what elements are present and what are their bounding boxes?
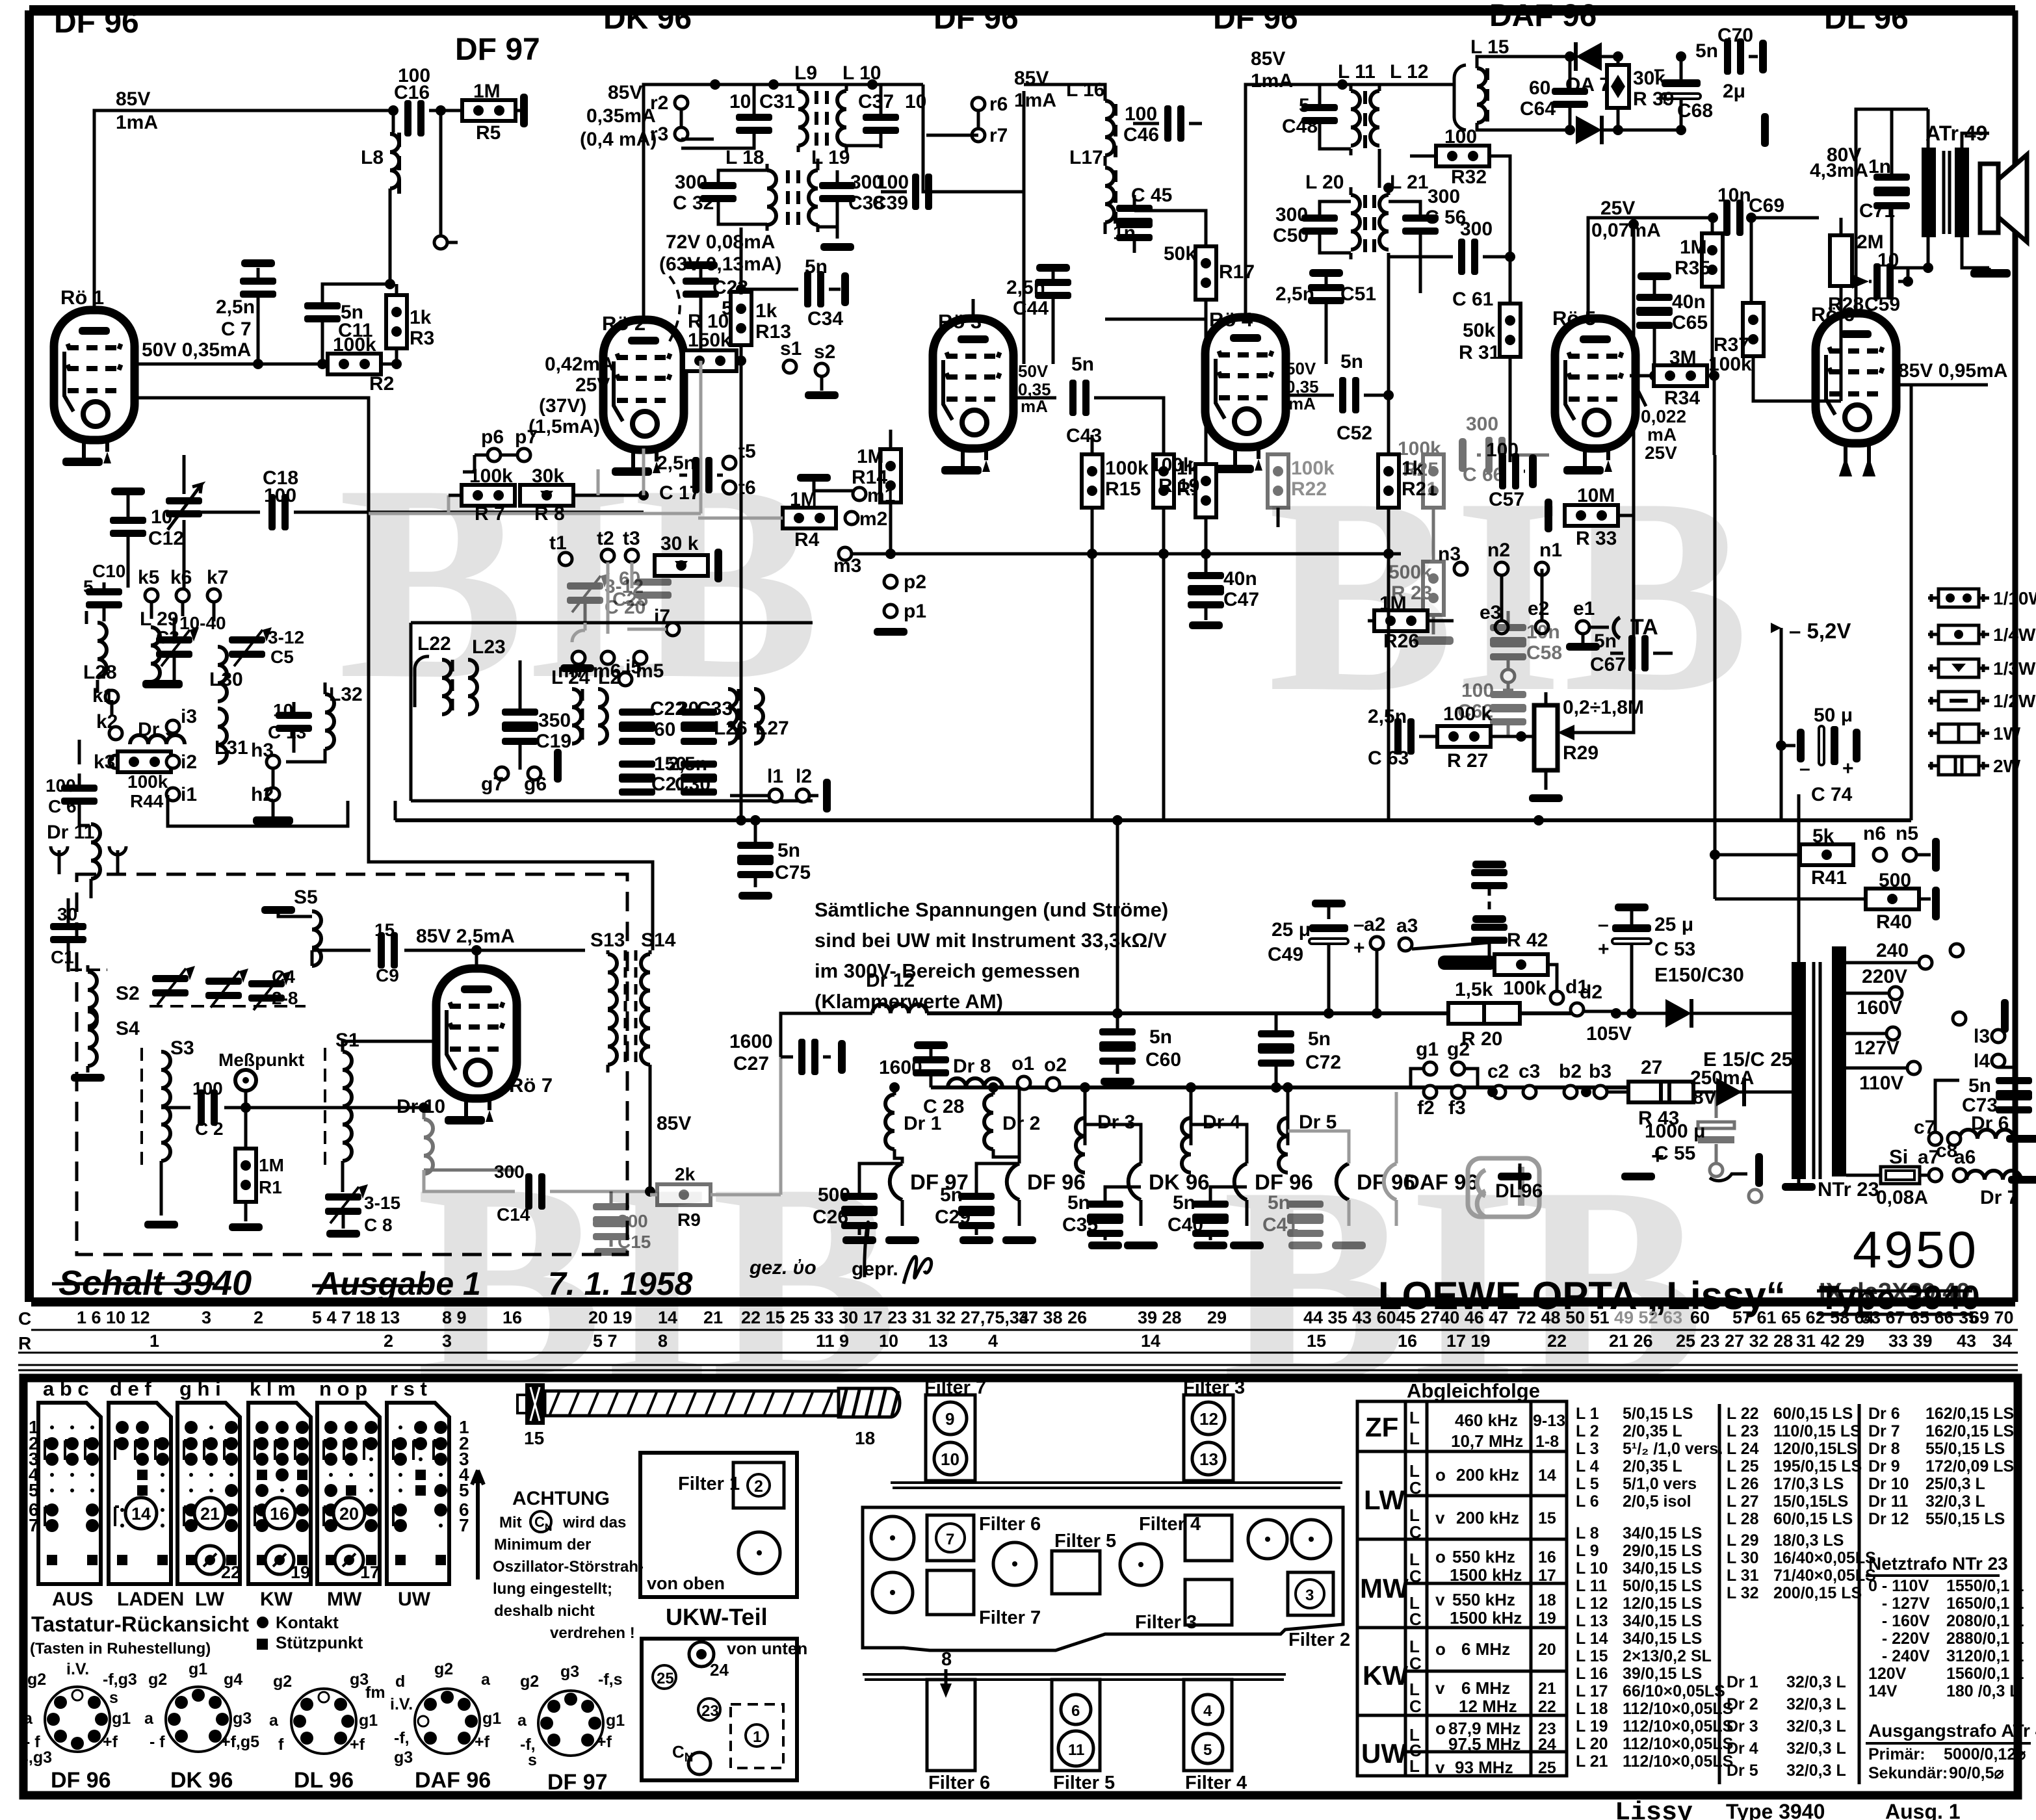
resistor R8 xyxy=(520,485,573,506)
svg-text:10: 10 xyxy=(273,700,293,720)
svg-text:60: 60 xyxy=(1690,1308,1710,1327)
C30 2,5n xyxy=(681,760,717,781)
svg-text:Dr 8: Dr 8 xyxy=(953,1056,991,1077)
svg-text:C64: C64 xyxy=(1520,98,1556,120)
svg-text:a3: a3 xyxy=(1396,915,1418,937)
SECTION:MIDLEFT terminals t + R7 R8 xyxy=(369,361,722,634)
legend 1/10W xyxy=(1928,588,2036,608)
svg-text:5/1,0 vers: 5/1,0 vers xyxy=(1623,1475,1697,1493)
svg-text:wird das: wird das xyxy=(562,1514,626,1531)
svg-text:Type 3940: Type 3940 xyxy=(1726,1800,1825,1820)
svg-text:–: – xyxy=(1654,58,1665,80)
svg-text:f2: f2 xyxy=(1417,1097,1435,1119)
svg-text:DF 96: DF 96 xyxy=(51,1768,111,1793)
svg-text:c2: c2 xyxy=(1487,1061,1509,1082)
svg-text:r2: r2 xyxy=(650,92,668,114)
svg-text:1M: 1M xyxy=(857,446,884,467)
L24 L25 xyxy=(572,689,581,744)
svg-text:+: + xyxy=(1659,88,1671,110)
svg-text:500: 500 xyxy=(818,1184,850,1206)
svg-text:180 /0,3 L: 180 /0,3 L xyxy=(1946,1682,2020,1700)
svg-text:100k: 100k xyxy=(1291,458,1335,479)
svg-text:DK 96: DK 96 xyxy=(170,1768,233,1793)
tube Rö2 xyxy=(603,320,684,450)
svg-text:L 11: L 11 xyxy=(1338,61,1376,83)
svg-text:g2: g2 xyxy=(148,1670,167,1689)
C64 xyxy=(1552,88,1588,108)
svg-text:g2: g2 xyxy=(27,1670,46,1689)
n3 n2 n1 terms xyxy=(1454,562,1467,575)
svg-text:27: 27 xyxy=(1641,1057,1662,1078)
svg-text:C 7: C 7 xyxy=(221,318,252,340)
svg-text:a: a xyxy=(481,1670,491,1689)
svg-text:4,3mA: 4,3mA xyxy=(1810,160,1868,181)
svg-text:25 23 27 32 28: 25 23 27 32 28 xyxy=(1676,1331,1793,1351)
svg-text:100k: 100k xyxy=(127,772,168,792)
svg-text:+: + xyxy=(1651,1144,1664,1169)
svg-text:24: 24 xyxy=(1538,1735,1556,1754)
svg-text:p7: p7 xyxy=(515,426,538,448)
svg-text:i1: i1 xyxy=(181,784,197,805)
svg-text:R 7: R 7 xyxy=(475,503,505,525)
R28 2M pot xyxy=(1830,235,1852,286)
svg-text:C49: C49 xyxy=(1268,944,1303,965)
coil L30 xyxy=(218,647,227,701)
ACHTUNG block xyxy=(493,1488,644,1642)
svg-text:L9: L9 xyxy=(794,62,817,84)
svg-text:R 19: R 19 xyxy=(1158,475,1199,497)
terminals t1 t2 t3 xyxy=(559,552,572,565)
svg-text:5¹/₂ /1,0 vers.: 5¹/₂ /1,0 vers. xyxy=(1623,1440,1723,1458)
svg-text:L28: L28 xyxy=(83,662,117,683)
svg-text:n1: n1 xyxy=(1539,539,1562,561)
svg-text:1mA: 1mA xyxy=(1014,90,1056,111)
svg-text:R37: R37 xyxy=(1714,334,1749,356)
svg-text:1 6 10 12: 1 6 10 12 xyxy=(77,1308,150,1327)
svg-text:i.V.: i.V. xyxy=(390,1695,413,1713)
svg-text:C12: C12 xyxy=(148,528,184,549)
svg-text:L 14: L 14 xyxy=(1576,1630,1608,1648)
svg-text:R25: R25 xyxy=(1403,459,1439,480)
svg-text:L 12: L 12 xyxy=(1390,61,1429,83)
svg-text:22: 22 xyxy=(1538,1698,1556,1716)
svg-text:Rö 7: Rö 7 xyxy=(509,1074,553,1097)
svg-text:4: 4 xyxy=(988,1331,998,1351)
coil L8 xyxy=(392,110,395,133)
svg-text:2,5n: 2,5n xyxy=(1006,277,1045,298)
svg-text:3-15: 3-15 xyxy=(364,1193,400,1213)
choke Dr11 xyxy=(91,824,100,879)
svg-text:0,2÷1,8M: 0,2÷1,8M xyxy=(1563,697,1644,718)
tube Rö7 xyxy=(436,968,517,1098)
resistor R10 xyxy=(683,350,737,371)
Dr5 DF96 xyxy=(1283,1082,1293,1093)
svg-text:31 42 29: 31 42 29 xyxy=(1796,1331,1864,1351)
svg-text:+: + xyxy=(1598,939,1610,960)
svg-text:C18: C18 xyxy=(263,467,298,489)
svg-text:L 15: L 15 xyxy=(1470,36,1509,58)
svg-text:C 6: C 6 xyxy=(48,796,77,816)
legend 1W xyxy=(1928,723,2021,744)
svg-text:R 8: R 8 xyxy=(534,503,565,525)
svg-text:gepr.: gepr. xyxy=(852,1258,898,1280)
svg-text:g3: g3 xyxy=(394,1748,413,1767)
svg-text:112/10×0,05LS: 112/10×0,05LS xyxy=(1623,1700,1733,1718)
switch contact xyxy=(1438,955,1496,970)
svg-text:Dr 7: Dr 7 xyxy=(1868,1422,1900,1440)
svg-text:8: 8 xyxy=(658,1331,668,1351)
coil L31 xyxy=(218,708,227,763)
svg-text:18: 18 xyxy=(1538,1591,1556,1609)
svg-text:97,5 MHz: 97,5 MHz xyxy=(1448,1734,1520,1754)
C61 300 xyxy=(1458,239,1478,275)
svg-text:Dr 8: Dr 8 xyxy=(1868,1440,1900,1458)
R33 10M xyxy=(1545,499,1552,532)
svg-text:17: 17 xyxy=(360,1563,380,1582)
svg-text:17 19: 17 19 xyxy=(1446,1331,1491,1351)
svg-text:Dr 2: Dr 2 xyxy=(1727,1695,1758,1713)
capacitor C7 xyxy=(241,259,275,267)
C19 350 xyxy=(502,708,538,729)
svg-text:s1: s1 xyxy=(780,338,802,359)
svg-text:C29: C29 xyxy=(935,1206,971,1228)
svg-text:Rö 1: Rö 1 xyxy=(60,286,104,309)
svg-text:C47: C47 xyxy=(1223,589,1259,610)
svg-text:Netztrafo NTr 23: Netztrafo NTr 23 xyxy=(1868,1553,2008,1574)
svg-text:C69: C69 xyxy=(1749,195,1784,216)
svg-text:1-8: 1-8 xyxy=(1535,1433,1559,1451)
svg-text:1M: 1M xyxy=(790,489,817,510)
capacitor C6 xyxy=(61,785,98,805)
svg-text:–: – xyxy=(1799,758,1810,779)
coil S4 xyxy=(88,1011,97,1066)
svg-text:R 33: R 33 xyxy=(1576,528,1617,549)
svg-text:E150/C30: E150/C30 xyxy=(1654,963,1744,986)
wires band switch xyxy=(151,602,214,621)
d2 xyxy=(1571,1003,1584,1016)
svg-text:Ausgabe 1: Ausgabe 1 xyxy=(315,1266,481,1302)
svg-text:m1: m1 xyxy=(867,485,895,506)
svg-text:g2: g2 xyxy=(1447,1039,1470,1060)
svg-text:Dr 6: Dr 6 xyxy=(1868,1405,1900,1423)
svg-text:5n: 5n xyxy=(1695,40,1718,62)
svg-text:C10: C10 xyxy=(92,561,125,581)
svg-text:r6: r6 xyxy=(989,94,1008,115)
svg-text:1650/0,1 L: 1650/0,1 L xyxy=(1946,1594,2024,1613)
svg-text:15: 15 xyxy=(524,1428,544,1448)
svg-text:85V: 85V xyxy=(1251,48,1285,70)
capacitor C34 xyxy=(741,227,798,289)
capacitor C18 xyxy=(184,511,644,514)
R26 1M xyxy=(1374,610,1428,631)
svg-text:2/0,5 isol: 2/0,5 isol xyxy=(1623,1492,1691,1511)
svg-text:160V: 160V xyxy=(1857,997,1902,1019)
svg-text:112/10×0,05LS: 112/10×0,05LS xyxy=(1623,1717,1733,1735)
svg-text:C43: C43 xyxy=(1066,425,1102,447)
svg-text:85V: 85V xyxy=(657,1113,691,1134)
svg-text:- 127V: - 127V xyxy=(1868,1594,1930,1613)
capacitor C44 xyxy=(1036,264,1070,272)
svg-text:l3: l3 xyxy=(1974,1026,1990,1047)
svg-text:C 53: C 53 xyxy=(1654,939,1695,960)
svg-text:b3: b3 xyxy=(1589,1061,1612,1082)
svg-text:R44: R44 xyxy=(130,791,164,811)
svg-text:1/3W: 1/3W xyxy=(1993,658,2036,679)
trimmer C20 gray xyxy=(567,573,646,623)
svg-text:C46: C46 xyxy=(1123,124,1159,146)
svg-text:BIB: BIB xyxy=(1268,441,1749,750)
svg-text:100k: 100k xyxy=(1708,354,1752,375)
svg-text:20 19: 20 19 xyxy=(588,1308,633,1327)
svg-text:L 30: L 30 xyxy=(1727,1549,1759,1567)
svg-text:C35: C35 xyxy=(1062,1214,1098,1236)
svg-text:16: 16 xyxy=(1538,1548,1556,1566)
svg-text:R17: R17 xyxy=(1219,261,1255,283)
svg-text:21: 21 xyxy=(703,1308,723,1327)
svg-text:300: 300 xyxy=(1460,218,1493,240)
svg-text:Dr 1: Dr 1 xyxy=(904,1113,941,1134)
svg-text:172/0,09 LS: 172/0,09 LS xyxy=(1925,1457,2014,1475)
svg-text:C: C xyxy=(1409,1654,1422,1673)
svg-text:Si: Si xyxy=(1889,1145,1908,1168)
svg-text:NTr 23: NTr 23 xyxy=(1818,1178,1879,1201)
svg-text:85V: 85V xyxy=(608,82,642,103)
svg-text:5n: 5n xyxy=(1308,1028,1331,1050)
handwriting gez/gepr xyxy=(749,1257,898,1280)
svg-text:- 240V: - 240V xyxy=(1868,1647,1930,1665)
svg-text:g1: g1 xyxy=(1416,1039,1439,1060)
svg-text:C30: C30 xyxy=(675,773,711,795)
legend 1/3W xyxy=(1928,658,2036,679)
svg-text:KW: KW xyxy=(1363,1660,1408,1691)
SECTION:DAF96 AREA xyxy=(1454,25,1769,147)
svg-text:2k: 2k xyxy=(675,1164,696,1184)
svg-text:g1: g1 xyxy=(112,1709,131,1728)
svg-text:2080/0,1 L: 2080/0,1 L xyxy=(1946,1612,2024,1630)
svg-text:S14: S14 xyxy=(641,929,676,951)
keyboard dots xyxy=(45,1421,447,1565)
svg-text:10: 10 xyxy=(941,1449,959,1469)
svg-text:L 16: L 16 xyxy=(1576,1665,1608,1683)
svg-text:C59: C59 xyxy=(1864,294,1900,315)
svg-text:s2: s2 xyxy=(814,341,835,363)
svg-text:+: + xyxy=(1353,937,1365,959)
wire L28 bottom xyxy=(98,680,112,712)
svg-text:– 5,2V: – 5,2V xyxy=(1789,619,1851,643)
svg-text:C58: C58 xyxy=(1526,642,1562,664)
svg-text:1000 μ: 1000 μ xyxy=(1645,1121,1705,1142)
S5 coil xyxy=(261,906,295,914)
filament bus (y=1673) xyxy=(931,1085,1645,1089)
svg-text:L 10: L 10 xyxy=(1576,1559,1608,1578)
svg-text:10M: 10M xyxy=(1577,485,1615,506)
capacitor C45 xyxy=(1116,205,1153,225)
svg-text:13: 13 xyxy=(928,1331,948,1351)
battery cells bottom xyxy=(1498,1173,1532,1180)
svg-text:2880/0,1 L: 2880/0,1 L xyxy=(1946,1630,2024,1648)
svg-text:C70: C70 xyxy=(1717,25,1753,46)
svg-text:8: 8 xyxy=(941,1649,952,1670)
svg-text:L 18: L 18 xyxy=(725,147,764,168)
svg-text:Abgleichfolge: Abgleichfolge xyxy=(1407,1379,1540,1402)
svg-text:5n: 5n xyxy=(1173,1192,1195,1214)
svg-text:L 1: L 1 xyxy=(1576,1405,1599,1423)
svg-text:85V 2,5mA: 85V 2,5mA xyxy=(416,926,515,947)
IF transformer L9/L10 xyxy=(710,79,720,90)
svg-text:C60: C60 xyxy=(1145,1049,1181,1071)
svg-text:DAF 96: DAF 96 xyxy=(415,1768,491,1793)
svg-text:C14: C14 xyxy=(497,1204,530,1225)
svg-text:L 9: L 9 xyxy=(1576,1542,1599,1560)
svg-text:40n: 40n xyxy=(1672,291,1706,313)
svg-text:Dr 1: Dr 1 xyxy=(1727,1673,1758,1691)
svg-text:1/10W: 1/10W xyxy=(1993,588,2036,608)
svg-text:R41: R41 xyxy=(1811,867,1847,889)
C60 5n xyxy=(1099,1028,1136,1048)
svg-text:90/0,5⌀: 90/0,5⌀ xyxy=(1949,1764,2004,1782)
svg-text:1: 1 xyxy=(753,1728,761,1746)
svg-text:s,g3: s,g3 xyxy=(20,1748,52,1767)
svg-text:k3: k3 xyxy=(94,751,115,773)
svg-text:200/0,15 LS: 200/0,15 LS xyxy=(1773,1584,1862,1602)
tube Rö5 xyxy=(1555,318,1636,448)
svg-text:L: L xyxy=(1409,1408,1420,1427)
svg-text:(0,4 mA): (0,4 mA) xyxy=(580,129,657,150)
svg-text:72 48 50 51: 72 48 50 51 xyxy=(1517,1308,1610,1327)
svg-text:L 25: L 25 xyxy=(1727,1457,1759,1475)
svg-text:21: 21 xyxy=(200,1504,220,1524)
svg-text:o: o xyxy=(1435,1547,1446,1566)
R35 1M xyxy=(1702,233,1723,287)
keyboard letters xyxy=(43,1377,427,1400)
C26 500 xyxy=(841,1193,878,1213)
capacitor C14 xyxy=(424,1170,650,1191)
Filter 1 box xyxy=(640,1453,797,1597)
c2 c3 b2 b3 xyxy=(1493,1085,1506,1098)
svg-text:Rö 3: Rö 3 xyxy=(938,310,982,333)
SECTION:MAIN BUSES xyxy=(168,385,1988,1085)
svg-text:18/0,3 LS: 18/0,3 LS xyxy=(1773,1531,1844,1550)
SECTION:NTR23 POWER xyxy=(1710,455,2036,1208)
svg-text:16: 16 xyxy=(502,1308,522,1327)
svg-text:300: 300 xyxy=(1428,186,1460,207)
svg-text:c7: c7 xyxy=(1914,1117,1935,1138)
svg-text:105V: 105V xyxy=(1586,1023,1632,1045)
svg-text:h2: h2 xyxy=(251,784,274,805)
svg-text:L 8: L 8 xyxy=(1576,1524,1599,1542)
svg-text:C75: C75 xyxy=(775,862,811,883)
svg-text:S3: S3 xyxy=(170,1037,194,1059)
SECTION:FILAMENT CHAIN xyxy=(729,1013,1804,1249)
svg-text:37 38 26: 37 38 26 xyxy=(1019,1308,1087,1327)
speaker xyxy=(1980,164,1998,233)
svg-text:R22: R22 xyxy=(1291,478,1327,500)
svg-text:L 17: L 17 xyxy=(1576,1682,1608,1700)
svg-text:a b c: a b c xyxy=(43,1377,89,1400)
svg-text:i.V.: i.V. xyxy=(66,1660,89,1678)
svg-text:r7: r7 xyxy=(989,125,1008,146)
svg-text:Filter 3: Filter 3 xyxy=(1135,1612,1197,1633)
svg-text:Ausgangstrafo ATr 49: Ausgangstrafo ATr 49 xyxy=(1868,1721,2036,1741)
svg-text:57 61 65 62 58 64: 57 61 65 62 58 64 xyxy=(1732,1308,1874,1327)
svg-text:L17: L17 xyxy=(1069,147,1103,168)
svg-text:2: 2 xyxy=(754,1477,763,1496)
svg-text:55/0,15 LS: 55/0,15 LS xyxy=(1925,1440,2005,1458)
svg-text:53 67 65 66 35: 53 67 65 66 35 xyxy=(1861,1308,1978,1327)
svg-text:3120/0,1 L: 3120/0,1 L xyxy=(1946,1647,2024,1665)
svg-text:g h i: g h i xyxy=(179,1377,221,1400)
svg-text:100k: 100k xyxy=(1105,458,1149,479)
svg-text:o1: o1 xyxy=(1011,1053,1034,1074)
svg-text:2μ: 2μ xyxy=(1723,81,1745,102)
svg-text:L 26: L 26 xyxy=(1727,1475,1759,1493)
svg-text:+f,g5: +f,g5 xyxy=(221,1733,259,1751)
R37 100k xyxy=(1743,303,1764,356)
svg-text:C50: C50 xyxy=(1273,225,1309,246)
svg-text:25/0,3 L: 25/0,3 L xyxy=(1925,1475,1985,1493)
SECTION:BOTTOMPANEL xyxy=(23,1378,2018,1795)
svg-text:Filter 4: Filter 4 xyxy=(1185,1773,1247,1793)
capacitor C9 xyxy=(378,932,398,968)
svg-text:C72: C72 xyxy=(1305,1052,1341,1073)
svg-text:C16: C16 xyxy=(394,82,430,103)
SECTION:CRSTRIP xyxy=(18,1308,31,1353)
svg-text:p6: p6 xyxy=(481,426,504,448)
svg-text:L 21: L 21 xyxy=(1576,1752,1608,1771)
svg-text:1n: 1n xyxy=(1113,222,1136,244)
svg-text:C9: C9 xyxy=(376,965,399,985)
trimmer C8 xyxy=(325,1184,368,1223)
svg-text:m6: m6 xyxy=(593,660,621,682)
wire k terminals to coils xyxy=(79,602,325,825)
svg-text:11 9: 11 9 xyxy=(816,1331,849,1351)
svg-text:60/0,15 LS: 60/0,15 LS xyxy=(1773,1510,1853,1528)
svg-text:L 20: L 20 xyxy=(1576,1735,1608,1753)
svg-text:112/10×0,05LS: 112/10×0,05LS xyxy=(1623,1735,1733,1753)
svg-text:R3: R3 xyxy=(410,328,434,349)
svg-text:L 29: L 29 xyxy=(1727,1531,1759,1550)
L11/L12 IF transformer xyxy=(1337,79,1348,90)
C53 25µ xyxy=(1612,924,1651,944)
svg-text:L 27: L 27 xyxy=(1727,1492,1759,1511)
svg-text:2×13/0,2 SL: 2×13/0,2 SL xyxy=(1623,1647,1712,1665)
C47 xyxy=(1205,554,1208,572)
svg-text:1/4W: 1/4W xyxy=(1993,625,2036,645)
resistor R7 xyxy=(449,494,462,497)
SECTION:DK96 STAGE xyxy=(580,62,1024,423)
rail 1 xyxy=(891,1483,1342,1488)
resistor R39 xyxy=(1607,65,1629,108)
svg-text:g1: g1 xyxy=(359,1711,378,1730)
svg-text:Filter 5: Filter 5 xyxy=(1053,1773,1115,1793)
resistor R3 xyxy=(386,295,407,348)
svg-text:2: 2 xyxy=(384,1331,393,1351)
svg-text:g6: g6 xyxy=(524,773,547,795)
svg-text:14V: 14V xyxy=(1868,1682,1898,1700)
svg-text:30 k: 30 k xyxy=(660,533,699,554)
svg-text:0,08A: 0,08A xyxy=(1876,1187,1928,1208)
svg-text:12: 12 xyxy=(1199,1409,1218,1429)
svg-text:1M: 1M xyxy=(1680,237,1707,258)
svg-text:C34: C34 xyxy=(807,308,843,330)
svg-text:S2: S2 xyxy=(116,983,140,1004)
svg-text:L30: L30 xyxy=(209,669,243,690)
R25 C66 column gray xyxy=(1389,413,1549,645)
resistor R5 xyxy=(462,100,516,121)
C51 xyxy=(1309,269,1343,277)
svg-text:DAF 96: DAF 96 xyxy=(1489,0,1597,33)
svg-text:o2: o2 xyxy=(1044,1054,1067,1076)
